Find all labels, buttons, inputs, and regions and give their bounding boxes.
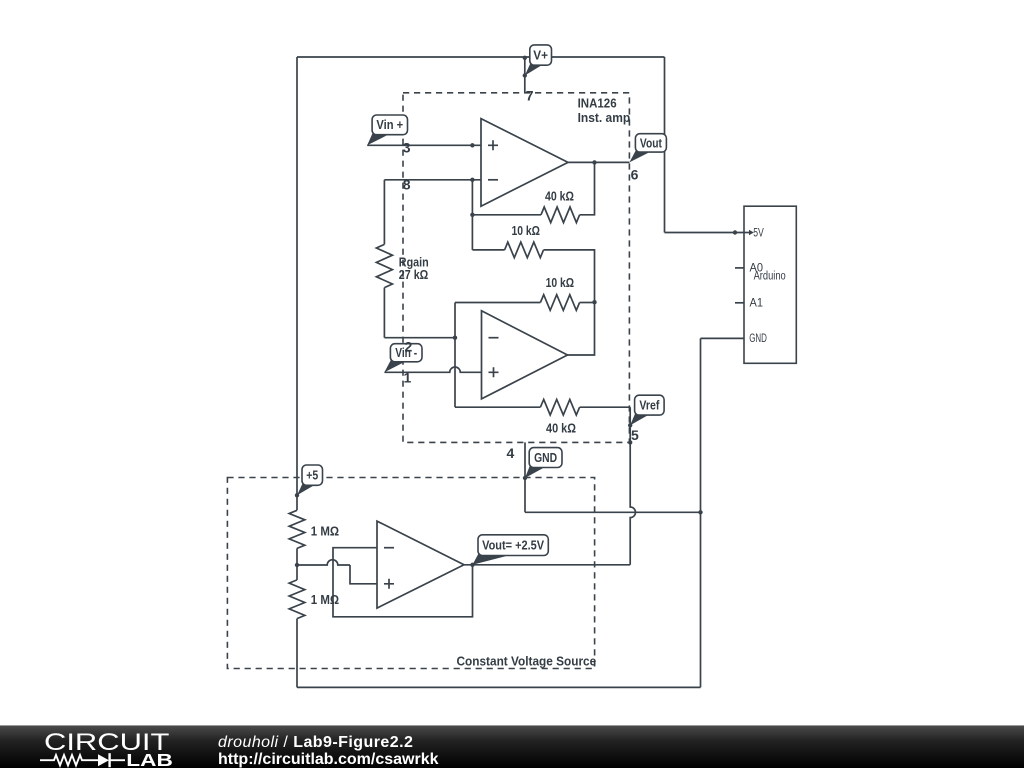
svg-text:+5: +5: [306, 469, 318, 483]
wire Rgain top lead: [383, 180, 385, 245]
svg-text:Vin +: Vin +: [376, 118, 403, 132]
wire to Arduino 5V pin: [665, 232, 745, 234]
node 10k junction: [592, 300, 596, 304]
resistor R5 10 kOhm lower: [540, 295, 579, 311]
node Vref flag attach: [628, 423, 632, 427]
wire Arduino GND pin: [701, 337, 745, 339]
wire left rail to bottom: [296, 619, 298, 688]
wire bottom ground rail: [297, 686, 701, 688]
wire V+ pin 7 drop: [524, 58, 526, 93]
op-amp U1: [481, 119, 568, 207]
svg-text:3: 3: [403, 140, 411, 156]
wire divider mid lower: [296, 565, 298, 580]
resistor R1 1 MOhm upper: [289, 510, 305, 548]
svg-text:2: 2: [405, 339, 413, 355]
wire 10k upper left lead: [472, 249, 504, 251]
node 40k upper left: [470, 213, 474, 217]
wire GND horizontal to right: [525, 511, 701, 513]
flag Vin+: [367, 115, 407, 145]
node V+ flag attach: [523, 73, 527, 77]
wire top +5V rail horizontal: [297, 56, 665, 58]
svg-text:7: 7: [526, 88, 534, 104]
svg-text:4: 4: [507, 445, 515, 461]
node divider midpoint: [295, 563, 299, 567]
wire pin 2 to minus bus: [384, 337, 455, 339]
svg-text:10 kΩ: 10 kΩ: [546, 275, 575, 290]
svg-text:A1: A1: [750, 296, 764, 310]
svg-text:GND: GND: [749, 331, 767, 345]
node U2 minus input: [453, 336, 457, 340]
svg-text:5V: 5V: [753, 226, 764, 240]
wire U1 minus bus vertical: [471, 180, 473, 250]
wire U1 output to Vout: [568, 161, 629, 163]
svg-text:8: 8: [403, 177, 411, 193]
svg-text:Vref: Vref: [639, 399, 660, 413]
wire 40k lower right lead: [580, 406, 631, 408]
svg-text:1 MΩ: 1 MΩ: [311, 524, 339, 539]
wire buffer output: [464, 564, 630, 566]
wire pin 4 GND drop: [524, 442, 526, 512]
pin stub A1: [735, 302, 744, 304]
Constant Voltage Source dashed box: [227, 478, 594, 669]
resistor R4 40 kOhm upper: [541, 207, 580, 223]
svg-text:10 kΩ: 10 kΩ: [512, 223, 541, 238]
wire divider mid upper: [296, 548, 298, 565]
resistor R3 Rgain 27 kOhm: [376, 244, 392, 287]
svg-text:GND: GND: [534, 451, 557, 465]
svg-text:Constant Voltage Source: Constant Voltage Source: [457, 653, 597, 668]
svg-text:5: 5: [631, 427, 639, 443]
svg-text:Inst. amp: Inst. amp: [578, 110, 631, 125]
node pin5 on dashed edge: [628, 440, 632, 444]
flag V+: [525, 45, 552, 76]
svg-text:V+: V+: [533, 48, 548, 62]
flag Vref: [630, 395, 664, 425]
wire divider to buffer with hop: [297, 560, 350, 565]
pin stub A0: [735, 267, 744, 269]
node junction at Arduino 5V: [733, 230, 737, 234]
wire U2 minus bus vertical: [454, 303, 456, 408]
svg-text:1 MΩ: 1 MΩ: [311, 592, 339, 607]
wire pin 8 horizontal: [384, 179, 481, 181]
wire buffer minus feedback left: [333, 548, 473, 617]
node V+ tap on top rail: [523, 56, 527, 60]
svg-text:Arduino: Arduino: [754, 271, 786, 283]
wire right ground vertical: [700, 338, 702, 687]
wire 10k lower left lead: [455, 302, 540, 304]
flag +5: [297, 465, 323, 495]
flag Vout2.5: [473, 535, 549, 565]
footer bar: [0, 725, 1024, 768]
node GND tie to Arduino gnd: [698, 510, 702, 514]
node GND flag attach: [523, 476, 527, 480]
flag Vin-: [384, 344, 422, 373]
op-amp U3: [377, 521, 464, 608]
wire buffer plus input drop: [350, 565, 377, 584]
wire Rgain bottom lead: [383, 288, 385, 338]
wire pin 3 Vin+ to U1 plus: [367, 144, 481, 146]
Arduino module box: [735, 206, 796, 363]
wire Vref vertical with hop over gnd: [630, 407, 635, 565]
node +5 flag attach: [295, 493, 299, 497]
INA126 dashed boundary box: [403, 93, 629, 443]
wire 40k lower left lead: [455, 406, 540, 408]
wire 40k upper left lead: [472, 214, 541, 216]
svg-text:40 kΩ: 40 kΩ: [546, 421, 576, 436]
wire 10k lower right lead: [580, 302, 595, 304]
pin arrow 5V: [745, 232, 750, 234]
wire U2 output up: [568, 302, 595, 355]
node U1 output junction: [592, 160, 596, 164]
CircuitLab logo: [30, 726, 220, 768]
svg-text:INA126: INA126: [578, 95, 617, 110]
wire 10k upper right lead: [544, 250, 595, 302]
wire pin 1 Vin- to U2 plus with hop: [384, 367, 481, 372]
svg-text:6: 6: [631, 167, 639, 183]
svg-text:1: 1: [404, 370, 412, 386]
node U1 minus input: [470, 178, 474, 182]
svg-text:27 kΩ: 27 kΩ: [399, 267, 429, 282]
wire +5V right vertical to Arduino: [664, 57, 666, 233]
wire left +5 rail vertical: [296, 57, 298, 510]
flag Vout: [629, 134, 666, 163]
svg-text:40 kΩ: 40 kΩ: [545, 189, 574, 204]
svg-text:LAB: LAB: [126, 750, 173, 768]
flag GND: [525, 448, 562, 478]
node buffer output junction: [470, 563, 474, 567]
resistor R6 40 kOhm lower: [540, 399, 579, 415]
resistor R2 1 MOhm lower: [289, 580, 305, 619]
svg-text:Vout= +2.5V: Vout= +2.5V: [482, 539, 545, 553]
logo resistor-diode squiggle: [40, 755, 98, 765]
node on pin3 wire: [470, 143, 474, 147]
op-amp U2: [482, 311, 568, 399]
resistor R7 10 kOhm upper: [505, 242, 544, 258]
svg-text:Vout: Vout: [640, 136, 663, 150]
wire 40k upper right lead: [580, 162, 595, 214]
